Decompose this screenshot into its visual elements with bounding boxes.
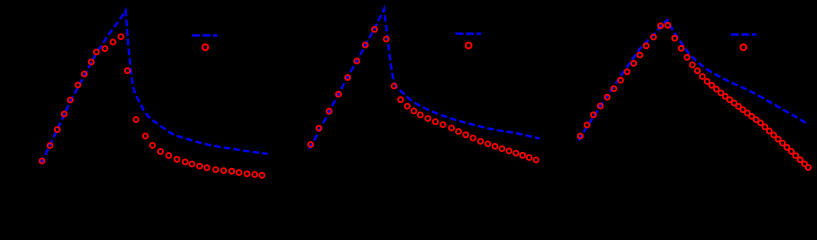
panel 1 legend red circle sample (202, 44, 208, 50)
panel 3 red circle data points (578, 134, 583, 139)
panel 2 legend red circle sample (466, 43, 472, 49)
panel 2 red circle data points (308, 142, 313, 147)
panel 1 legend blue dashed line sample (192, 34, 218, 36)
panel 3 blue dashed theory curve (579, 20, 808, 141)
panel 3 legend blue dashed line sample (731, 33, 757, 35)
panel 3 legend red circle sample (741, 44, 747, 50)
panel 1 blue dashed theory curve (41, 11, 268, 164)
panel 1 red circle data points (40, 159, 45, 164)
panel 2 legend blue dashed line sample (456, 33, 482, 35)
panel 2 blue dashed theory curve (310, 9, 540, 149)
